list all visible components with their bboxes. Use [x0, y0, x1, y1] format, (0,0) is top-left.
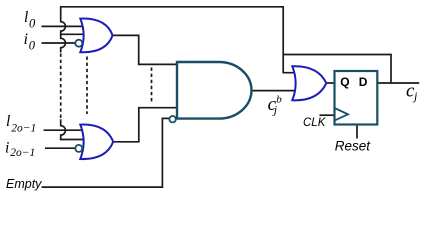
svg-text:0: 0	[29, 39, 36, 53]
or gate U4	[292, 66, 326, 100]
wire: U1 middle input tap from feedback	[61, 33, 90, 35]
svg-text:2o−1: 2o−1	[10, 147, 35, 159]
or gate U2	[80, 125, 113, 160]
svg-text:0: 0	[29, 17, 36, 31]
wire: l0 input	[42, 25, 91, 27]
wire: feedback right vertical down to OR gate top input	[283, 6, 298, 73]
bubble on U1 i0 input	[75, 40, 82, 47]
wire: feedback top horizontal to right side	[60, 6, 283, 8]
or gate U1	[80, 19, 112, 53]
wire: dashed ellipsis between input gates	[86, 57, 88, 115]
svg-text:Q: Q	[340, 75, 349, 89]
and gate U3	[177, 62, 251, 119]
svg-text:b: b	[276, 94, 282, 106]
svg-text:i: i	[24, 31, 28, 48]
wire: l2o-1 input	[44, 129, 91, 131]
bubble on U2 i2o-1 input	[75, 145, 82, 152]
svg-text:l: l	[24, 9, 28, 26]
svg-text:i: i	[5, 140, 9, 157]
bubble on U3 Empty inverted input	[169, 116, 175, 122]
wire: Empty input up to AND inverted input bubble	[42, 118, 170, 187]
svg-text:Reset: Reset	[335, 138, 372, 153]
wire: dashed feedback continuation between stages	[60, 54, 62, 120]
wire: feedback lower segment with hop over l2o-1 into U2 middle input	[61, 119, 90, 139]
svg-text:2o−1: 2o−1	[11, 122, 36, 134]
svg-text:Empty: Empty	[6, 177, 42, 191]
svg-text:D: D	[359, 75, 368, 89]
wire: feedback vertical with hops over l0 and i0	[61, 7, 66, 53]
svg-text:CLK: CLK	[303, 117, 327, 129]
wire: U2 output to AND lower input	[113, 108, 177, 142]
wire: i0 input to bubble	[42, 42, 76, 44]
svg-text:l: l	[6, 113, 10, 130]
wire: cj feedback horizontal from output branch	[283, 55, 391, 84]
wire: OR output to flip-flop	[326, 82, 334, 84]
wire: U1 output to AND top input	[113, 35, 177, 64]
flip-flop U5 box	[335, 71, 378, 125]
wire: flip-flop output cj	[377, 82, 419, 84]
flip-flop U5 clock triangle	[335, 108, 349, 121]
wire: AND output to OR lower input	[251, 90, 299, 92]
wire: i2o-1 input to bubble	[45, 147, 75, 149]
wire: dashed ellipsis of AND inputs	[151, 68, 153, 104]
wire: CLK stub	[320, 114, 335, 116]
wire: Reset stub	[356, 125, 358, 138]
